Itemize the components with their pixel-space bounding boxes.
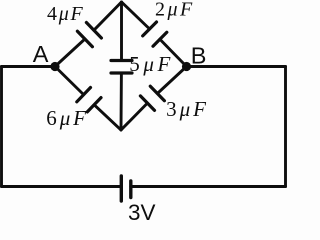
capacitor C4 6uF plate 1 (77, 88, 91, 102)
capacitor C5 3uF plate 1 (140, 96, 154, 111)
svg-text:4μF: 4μF (47, 3, 84, 25)
wire battery to bottom right corner (131, 185, 286, 188)
svg-text:6μF: 6μF (46, 106, 89, 130)
capacitor C3 5uF plate 1 (111, 59, 132, 62)
capacitor C4 6uF plate 2 (87, 98, 101, 112)
capacitor C1 4uF plate 1 (77, 31, 92, 47)
wire bottom left to battery (2, 185, 122, 188)
wire C5 to node B (157, 67, 186, 94)
svg-text:A: A (33, 41, 49, 67)
wire right vertical side (284, 67, 287, 187)
wire node A down to C4 (55, 67, 84, 95)
capacitor C2 2uF plate 1 (143, 22, 157, 36)
wire left vertical side (0, 67, 3, 187)
wire C3 down to bottom node (120, 73, 123, 130)
node B junction dot (182, 62, 191, 71)
svg-text:5μF: 5μF (129, 52, 174, 76)
svg-text:B: B (191, 43, 207, 69)
wire C1 to top node (94, 2, 122, 30)
capacitor C3 5uF plate 2 (111, 71, 132, 74)
battery V1 positive long plate (120, 176, 123, 201)
svg-text:3μF: 3μF (166, 97, 209, 121)
wire C2 to node B (160, 39, 187, 66)
wire node A up to C1 (55, 39, 85, 67)
node A junction dot (50, 62, 59, 71)
svg-text:2μF: 2μF (155, 0, 195, 21)
wire node A to left edge (2, 65, 56, 68)
wire C4 to bottom node (94, 105, 121, 130)
battery V1 negative short plate (129, 181, 132, 198)
wire top node down to C2 (122, 2, 150, 29)
wire right edge to node B (187, 65, 286, 68)
wire top node down to C3 (120, 2, 123, 61)
capacitor C2 2uF plate 2 (153, 32, 167, 46)
capacitor C5 3uF plate 2 (150, 86, 164, 101)
svg-text:3V: 3V (128, 200, 156, 225)
wire bottom node up to C5 (121, 103, 147, 130)
capacitor C1 4uF plate 2 (86, 23, 101, 39)
